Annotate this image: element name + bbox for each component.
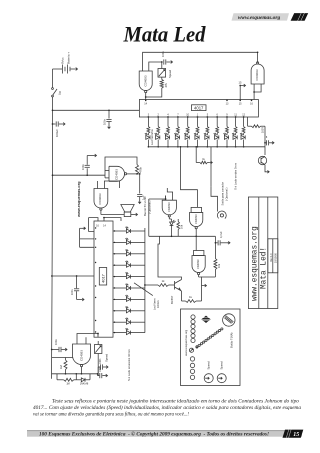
- label www.esquemas.org rotated: [77, 181, 81, 218]
- resistor Rl9: [226, 113, 229, 133]
- svg-text:CD4093: CD4093: [167, 202, 171, 212]
- resistor R5 10k: [202, 236, 221, 277]
- PCB diagonal pads: [196, 328, 223, 348]
- svg-text:Led Verm: Led Verm: [152, 298, 156, 310]
- transistor Q1 BC557: [170, 280, 182, 305]
- svg-text:CD4093: CD4093: [196, 259, 200, 269]
- header logo mark: [291, 13, 309, 21]
- svg-text:Speed: Speed: [168, 69, 172, 78]
- svg-text:CD4093: CD4093: [143, 75, 147, 86]
- op-amp gate U2D CD4093: [73, 340, 91, 372]
- resistor R4 10k: [177, 219, 183, 236]
- svg-text:Lig: Lig: [58, 91, 62, 95]
- svg-text:vai se tornar uma diversão gar: vai se tornar uma diversão garantida par…: [33, 411, 189, 418]
- capacitor C9 100n: [98, 358, 108, 376]
- PCB text Botao: [230, 332, 234, 348]
- wire speaker junction down: [148, 199, 150, 236]
- wire bus to R6: [144, 284, 158, 286]
- capacitor C6 1uF: [137, 173, 145, 203]
- LED D4: [174, 133, 179, 148]
- op-amp gate U1A CD4093: [139, 67, 152, 100]
- wire left rail: [52, 97, 54, 175]
- title block site text: [251, 226, 259, 301]
- svg-text:9Vcc: 9Vcc: [61, 57, 65, 64]
- wire U1D inputs: [97, 181, 119, 188]
- capacitor C2 100n: [103, 109, 112, 128]
- LED Dc7: [113, 295, 145, 302]
- wire IC2 top pins: [89, 217, 122, 221]
- svg-text:4017... Com ajuste de velocida: 4017... Com ajuste de velocidades (Speed…: [33, 404, 301, 411]
- resistor Rl11: [242, 113, 245, 133]
- wire U2A inputs: [149, 188, 173, 200]
- svg-text:www.esquemas.org: www.esquemas.org: [77, 181, 81, 218]
- LED Dc1: [113, 227, 145, 234]
- wire U2B out to U2C: [195, 236, 197, 250]
- svg-text:Buzzer 5V s/ osc.: Buzzer 5V s/ osc.: [143, 196, 147, 216]
- svg-text:100n: 100n: [99, 358, 102, 364]
- PCB trimpot 1: [204, 374, 213, 383]
- resistor Rl7: [206, 113, 209, 133]
- svg-text:Botão T(NA): Botão T(NA): [230, 332, 234, 348]
- svg-text:Bateria +: Bateria +: [67, 52, 71, 64]
- PCB text www.esquemas.org: [184, 329, 188, 356]
- svg-text:4017: 4017: [100, 273, 105, 283]
- resistor R10 zigzag bottom: [57, 374, 76, 386]
- LED D6: [194, 133, 199, 148]
- resistor R7 1k: [182, 295, 202, 302]
- LED D5: [184, 133, 189, 148]
- wire U1C out to right: [137, 173, 140, 175]
- svg-text:4017: 4017: [194, 105, 204, 110]
- LED Dc4: [113, 261, 145, 268]
- svg-text:www.esquemas.org: www.esquemas.org: [184, 329, 188, 356]
- LED D12: [169, 217, 175, 238]
- LED Dc10: [113, 328, 145, 335]
- footer page number: [283, 430, 304, 439]
- PCB trimpot 2: [217, 374, 226, 383]
- connector jack output: [211, 147, 229, 219]
- capacitor C8 100n: [51, 339, 67, 352]
- svg-text:1N4148: 1N4148: [80, 382, 89, 385]
- svg-text:10mm: 10mm: [156, 300, 160, 308]
- svg-text:Rev 1.0: Rev 1.0: [270, 253, 273, 262]
- LED D8: [214, 133, 219, 148]
- wire U1A input2 to RC: [149, 61, 163, 66]
- LED Dc6: [113, 284, 145, 291]
- resistor R6 1k: [158, 279, 175, 287]
- svg-text:47k: 47k: [164, 82, 168, 87]
- svg-text:www.esquemas.org: www.esquemas.org: [238, 15, 281, 21]
- IC U2 4017 top: [139, 100, 258, 118]
- capacitor C7 4,7uF: [215, 231, 230, 245]
- LED D9: [224, 133, 229, 148]
- svg-text:10k: 10k: [179, 224, 183, 229]
- diode D13 1N4148: [76, 374, 90, 386]
- svg-text:100n: 100n: [54, 339, 58, 345]
- svg-text:Speed: Speed: [207, 361, 211, 370]
- svg-text:470k: 470k: [139, 166, 143, 173]
- svg-text:S é Leds amarelos 10mm: S é Leds amarelos 10mm: [127, 348, 131, 381]
- svg-text:( Opcional ): ( Opcional ): [225, 187, 229, 201]
- title block rev table: [268, 239, 278, 273]
- PCB buzzer circle: [223, 314, 235, 326]
- transistor Q2: [258, 147, 269, 173]
- svg-text:CD4093: CD4093: [98, 193, 102, 204]
- svg-text:Saída para contador: Saída para contador: [220, 182, 224, 206]
- LED D3: [165, 133, 170, 148]
- svg-text:10k: 10k: [217, 263, 221, 268]
- svg-text:CD4093: CD4093: [255, 69, 259, 80]
- PCB label Speed 1: [207, 361, 211, 370]
- resistor Rl2: [157, 113, 160, 133]
- wire U1A output node: [145, 88, 162, 98]
- svg-text:CD4093: CD4093: [194, 214, 198, 224]
- svg-text:CD4093: CD4093: [115, 169, 119, 180]
- svg-text:4,7uF: 4,7uF: [219, 231, 223, 238]
- wire R3 feedback: [105, 157, 137, 171]
- capacitor C1 100uF: [52, 121, 65, 137]
- wire mid bus: [52, 174, 105, 176]
- resistor Rl6: [196, 113, 199, 133]
- wire LED bus to U2B input: [180, 146, 198, 207]
- svg-text:CD4093: CD4093: [79, 350, 83, 361]
- PCB pad column upper: [191, 315, 195, 343]
- wire U2D out: [81, 372, 83, 375]
- label S e Leds amarelos: [127, 348, 131, 381]
- svg-text:Speed: Speed: [220, 361, 224, 370]
- resistor Rl5: [186, 113, 189, 133]
- switch S1 Lig: [52, 69, 62, 97]
- battery B1 9Vcc: [53, 52, 78, 74]
- resistor R1 47k: [160, 77, 168, 88]
- op-amp gate U1B CD4093: [251, 51, 264, 88]
- title block frame: [248, 197, 277, 309]
- svg-text:Mata Led!: Mata Led!: [261, 247, 269, 289]
- op-amp gate U1D CD4093: [94, 184, 108, 215]
- wire Q1 collector-emitter: [158, 236, 182, 301]
- wire U2D top links: [77, 333, 99, 340]
- wire IC2 left pins: [89, 218, 97, 333]
- wire U2C out down: [199, 277, 207, 301]
- op-amp gate U2C CD4093: [192, 251, 205, 278]
- wire bus top: [144, 228, 146, 231]
- LED D1: [145, 133, 150, 148]
- potentiometer P2 Speed: [95, 341, 109, 376]
- wire LED column bus: [144, 231, 146, 333]
- resistor R3 470k: [127, 165, 143, 175]
- LED Dc5: [113, 272, 145, 279]
- svg-text:100n: 100n: [103, 118, 107, 125]
- svg-text:Speed: Speed: [105, 353, 109, 362]
- wire bottom row A: [52, 373, 99, 375]
- svg-text:100n: 100n: [81, 164, 85, 170]
- svg-text:15: 15: [293, 432, 299, 438]
- wire mid rail: [149, 235, 216, 237]
- LED Dc2: [113, 238, 145, 245]
- LED Dc3: [113, 249, 145, 256]
- wire left rail lower: [52, 175, 53, 379]
- wire right branch: [264, 126, 266, 147]
- svg-text:100n: 100n: [71, 289, 74, 295]
- node annotation diagonal: [134, 283, 160, 310]
- capacitor C10 100n: [98, 366, 108, 378]
- wire top bus to IC1: [52, 109, 140, 111]
- LED Dc9: [113, 318, 145, 325]
- capacitor C5 100n: [81, 154, 97, 176]
- resistor R9 1k from bus: [195, 146, 212, 164]
- op-amp gate U2B CD4093: [190, 207, 203, 237]
- title block name: [261, 247, 269, 289]
- svg-text:www.esquemas.org: www.esquemas.org: [251, 226, 259, 301]
- svg-text:BC557: BC557: [170, 295, 174, 304]
- svg-text:19/10/06: 19/10/06: [275, 253, 278, 263]
- resistor Rl8: [216, 113, 219, 133]
- header band www.esquemas.org: [232, 13, 290, 21]
- footer band: [27, 430, 302, 437]
- PCB diamond logo: [201, 316, 210, 323]
- caption text: [33, 398, 301, 418]
- svg-text:Led Verm/Inv: Led Verm/Inv: [150, 129, 154, 145]
- svg-text:S é Leds verdes 5mm: S é Leds verdes 5mm: [234, 162, 238, 190]
- wire IC2 enable branch: [80, 227, 94, 247]
- svg-text:( Opcional ): ( Opcional ): [147, 200, 151, 214]
- svg-text:100uF: 100uF: [55, 129, 59, 137]
- svg-text:Teste seus reflexos e pontaria: Teste seus reflexos e pontaria neste jog…: [52, 398, 299, 405]
- op-amp gate U1C CD4093: [105, 166, 127, 181]
- label S e Leds verdes 5mm: [234, 162, 238, 190]
- node reset tap with connector arrow: [239, 81, 246, 100]
- svg-text:100n: 100n: [161, 51, 165, 57]
- LED D2: [155, 133, 160, 148]
- LED D7: [204, 133, 209, 148]
- LED Dc8: [113, 306, 145, 313]
- resistor Rl1: [147, 113, 150, 133]
- PCB pad column lower: [190, 357, 194, 380]
- label Led Verm/Inv: [150, 129, 154, 145]
- PCB pot pad: [189, 346, 198, 353]
- wire feedback U1A input: [143, 52, 258, 66]
- svg-text:1M: 1M: [66, 382, 69, 385]
- potentiometer P1 Speed: [158, 62, 172, 78]
- wire LED cathode bus: [148, 146, 265, 148]
- resistor Rl3: [167, 113, 170, 133]
- capacitor C3 100n: [161, 51, 173, 65]
- PCB label Speed 2: [220, 361, 224, 370]
- resistor R2 100R: [248, 117, 265, 133]
- svg-text:Mata Led: Mata Led: [123, 21, 207, 46]
- svg-text:100n: 100n: [99, 366, 102, 372]
- svg-text:100R: 100R: [262, 127, 265, 133]
- PCB layout frame: [181, 309, 241, 386]
- resistor Rl4: [177, 113, 180, 133]
- resistor Rl10: [234, 113, 237, 133]
- capacitor C11 100n: [51, 275, 94, 301]
- IC U3 4017 vertical: [94, 221, 113, 337]
- LED D11: [240, 133, 245, 148]
- resistor R8 1M: [52, 358, 73, 374]
- op-amp gate U2A CD4093: [162, 196, 176, 217]
- wire U1B inputs to IC1: [253, 88, 261, 100]
- LED D10: [232, 133, 237, 148]
- capacitor C4 100n: [265, 136, 274, 146]
- svg-text:100 Esquemas Exclusivos de Ele: 100 Esquemas Exclusivos de Eletrônica - …: [39, 431, 269, 438]
- speaker buzzer: [101, 196, 151, 217]
